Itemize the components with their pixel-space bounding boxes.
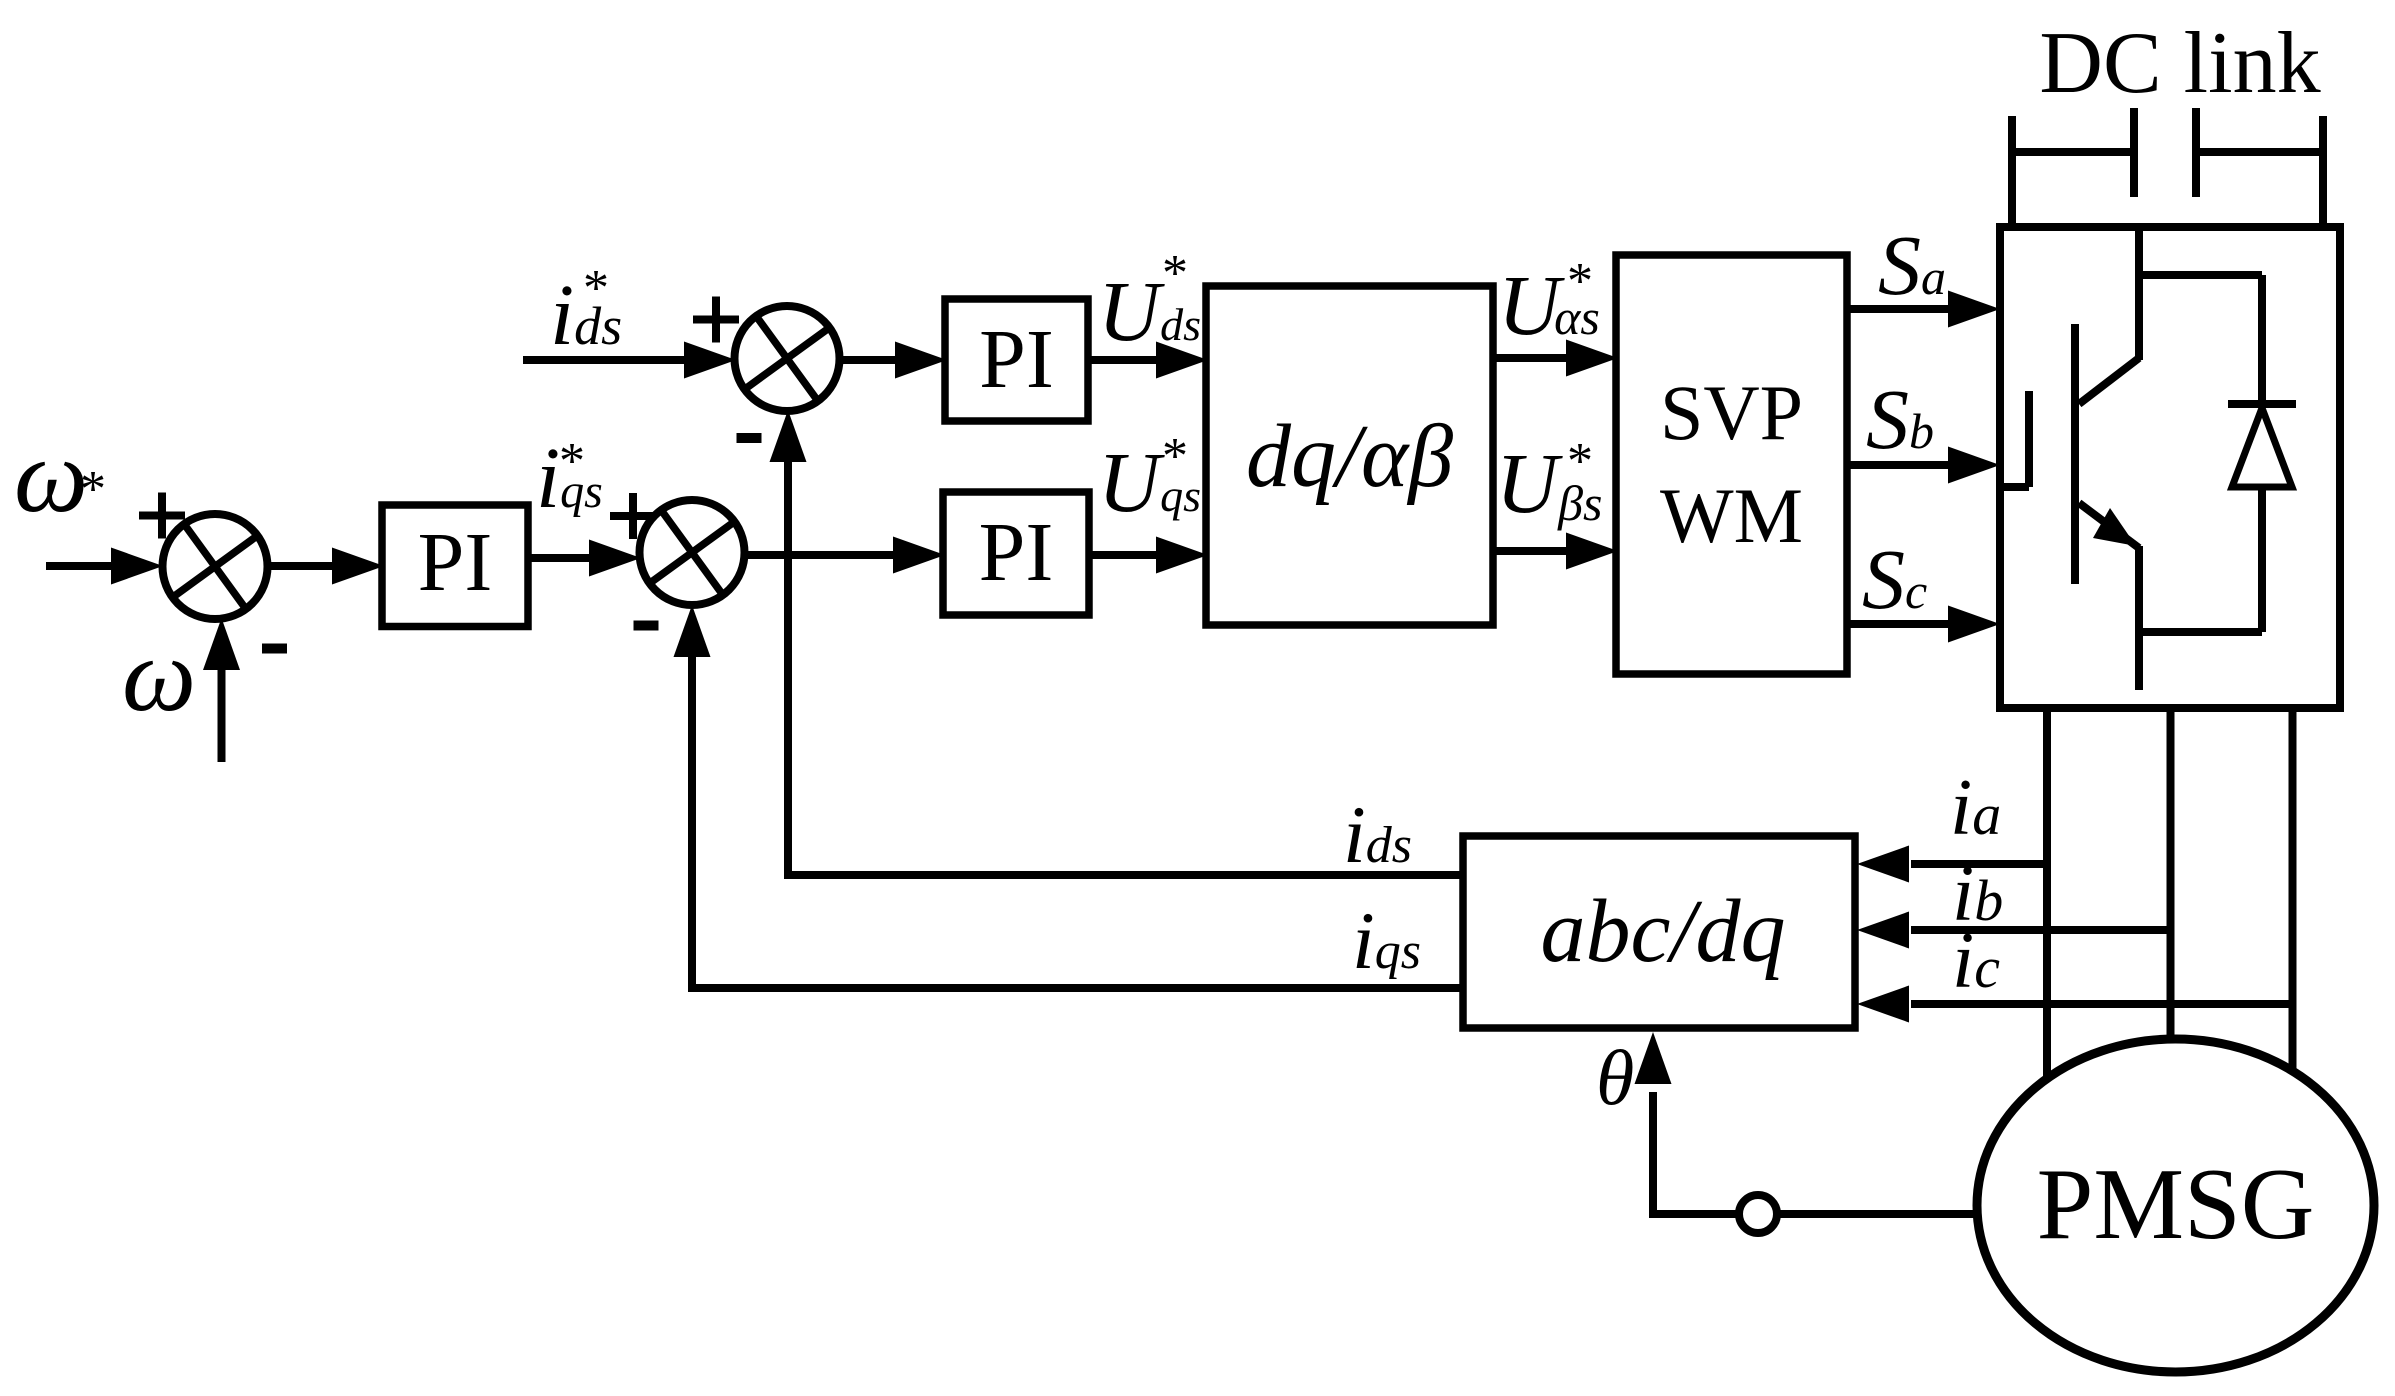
wire iqs feedback: [692, 657, 1463, 988]
arrowhead ib into abc/dq: [1857, 912, 1909, 949]
arrowhead into dq block (ds row): [1156, 342, 1208, 379]
minus sign at speed summer: [262, 644, 287, 654]
svg-text:PMSG: PMSG: [2037, 1148, 2315, 1261]
capacitor C1 left plate: [2130, 108, 2138, 197]
wire ids feedback: [788, 462, 1463, 875]
diode D1 triangle: [2232, 408, 2292, 487]
arrowhead ic into abc/dq: [1857, 986, 1909, 1023]
wire omega feedback up: [218, 668, 226, 762]
svg-text:*: *: [80, 461, 106, 518]
summing junction S1 (speed error): [163, 514, 268, 619]
svg-text:θ: θ: [1596, 1034, 1634, 1121]
wire Q1 collector diagonal: [2079, 358, 2139, 404]
wire DC link left lead: [2012, 148, 2134, 156]
wire diode D1 top lead: [2258, 275, 2266, 404]
svg-text:*: *: [1162, 428, 1188, 485]
svg-text:ω: ω: [122, 616, 196, 733]
svg-text:PI: PI: [418, 516, 493, 609]
svg-text:dq/αβ: dq/αβ: [1246, 407, 1453, 506]
svg-text:abc/dq: abc/dq: [1541, 882, 1786, 981]
svg-text:*: *: [559, 433, 585, 490]
machine PMSG: [1977, 1039, 2374, 1372]
wire PI3 to dq block: [1089, 551, 1158, 559]
sensor circle: [1739, 1195, 1777, 1233]
summing junction S2 (d-axis current error): [735, 306, 840, 411]
plus sign at speed summer: [139, 512, 185, 520]
svg-text:PI: PI: [979, 506, 1054, 599]
transistor Q1 IGBT main bar: [2071, 324, 2079, 584]
wire speed summer to PI1: [268, 562, 336, 570]
wire phase a from inverter: [2043, 708, 2051, 1078]
svg-text:*: *: [1567, 433, 1593, 490]
wire DC link right lead: [2196, 148, 2323, 156]
wire DC link right terminal: [2319, 116, 2327, 228]
arrowhead Q1 emitter: [2093, 508, 2136, 546]
arrowhead into SVPWM (alpha row): [1566, 340, 1618, 377]
svg-text:DC link: DC link: [2039, 15, 2320, 112]
arrowhead into dq block (qs row): [1156, 537, 1208, 574]
transistor Q1 gate bar: [2025, 391, 2033, 487]
arrowhead ids into ds summer bottom: [770, 410, 807, 462]
block PI1 speed controller: [382, 505, 528, 627]
wire ia: [1911, 860, 2047, 868]
wire ds summer to PI2: [840, 356, 899, 364]
svg-text:WM: WM: [1660, 472, 1803, 559]
arrowhead theta into abc/dq bottom: [1635, 1032, 1672, 1084]
capacitor C1 right plate: [2192, 108, 2200, 197]
svg-text:*: *: [1162, 245, 1188, 302]
summing junction S3 (q-axis current error): [640, 500, 745, 605]
wire Q1 gate lead: [2000, 483, 2029, 491]
wire Sa: [1847, 305, 1950, 313]
arrowhead into qs summer: [589, 540, 641, 577]
block PI2 d-axis current controller: [945, 299, 1088, 421]
wire DC link left terminal: [2008, 116, 2016, 228]
arrowhead into SVPWM (beta row): [1566, 533, 1618, 570]
plus sign at ds summer: [693, 316, 739, 324]
wire diode D1 bottom lead: [2258, 487, 2266, 632]
svg-text:*: *: [1567, 253, 1593, 310]
plus sign at qs summer: [610, 512, 656, 520]
wire collector lead from top: [2135, 227, 2143, 360]
svg-text:SVP: SVP: [1660, 369, 1803, 456]
wire phase b from inverter: [2167, 708, 2175, 1041]
block inverter outline: [2000, 227, 2340, 708]
wire phase c from inverter: [2289, 708, 2297, 1073]
wire Sc: [1847, 620, 1950, 628]
arrowhead iqs into qs summer bottom: [674, 605, 711, 657]
wire dq to SVPWM (alpha row): [1493, 354, 1568, 362]
wire Q1 emitter down: [2135, 546, 2143, 690]
wire PI1 to qs summer: [528, 554, 592, 562]
arrowhead omega into speed summer bottom: [203, 618, 240, 670]
wire ib: [1911, 926, 2170, 934]
block PI3 q-axis current controller: [943, 492, 1089, 615]
arrowhead into PI2: [895, 342, 947, 379]
block abc/dq transform: [1463, 836, 1855, 1028]
arrowhead into PI3: [893, 537, 945, 574]
svg-text:ω: ω: [14, 417, 88, 534]
arrowhead Sb into inverter: [1948, 447, 2000, 484]
arrowhead into speed summer: [111, 548, 163, 585]
wire Sb: [1847, 461, 1950, 469]
minus sign at qs summer: [634, 621, 659, 631]
wire ic: [1911, 1000, 2293, 1008]
wire PMSG to sensor: [1779, 1210, 1978, 1218]
wire PI2 to dq block: [1088, 356, 1158, 364]
arrowhead into ds summer: [684, 342, 736, 379]
wire emitter branch to diode: [2139, 628, 2262, 636]
wire dq to SVPWM (beta row): [1493, 547, 1568, 555]
wire qs summer to PI3: [745, 551, 897, 559]
wire i*ds input: [523, 356, 686, 364]
arrowhead into PI1: [332, 548, 384, 585]
block SVPWM modulator: [1616, 255, 1847, 674]
wire sensor to theta riser: [1653, 1092, 1739, 1214]
block dq/alphabeta transform: [1206, 286, 1493, 625]
arrowhead Sc into inverter: [1948, 606, 2000, 643]
svg-text:PI: PI: [979, 313, 1054, 406]
wire Q1 emitter diagonal: [2079, 503, 2139, 548]
arrowhead Sa into inverter: [1948, 291, 2000, 328]
minus sign at ds summer: [737, 433, 762, 443]
diode D1 cathode bar: [2228, 400, 2296, 408]
wire omega* input: [46, 562, 116, 570]
wire collector branch to diode: [2139, 271, 2262, 279]
arrowhead ia into abc/dq: [1857, 846, 1909, 883]
svg-text:*: *: [583, 260, 609, 317]
